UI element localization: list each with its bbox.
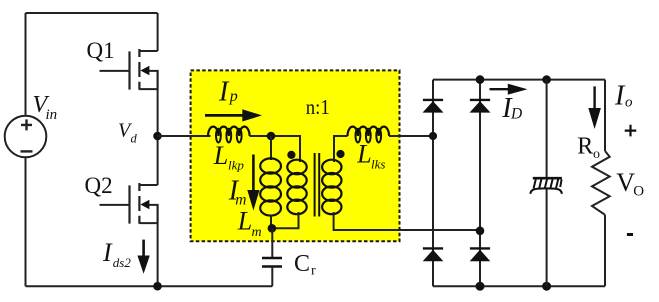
wire node to Lm: [270, 136, 272, 160]
rectifier top rail: [433, 79, 605, 81]
label VO: [616, 168, 644, 199]
node rectifier input bottom: [476, 227, 485, 236]
svg-text:in: in: [46, 107, 58, 123]
svg-text:D: D: [510, 106, 522, 123]
core: [315, 153, 320, 217]
source Vin: [5, 116, 47, 158]
transformer T1: [287, 150, 344, 217]
junction dot bottom-left rail: [153, 282, 162, 291]
label Llks: [356, 139, 385, 171]
svg-text:o: o: [593, 147, 600, 162]
secondary winding: [322, 160, 341, 175]
svg-text:p: p: [229, 88, 238, 105]
primary winding: [287, 160, 306, 175]
wire primary bottom to node B: [271, 212, 299, 228]
resonant tank highlight box: [191, 70, 400, 241]
svg-text:R: R: [577, 134, 593, 160]
svg-text:L: L: [213, 141, 228, 170]
diode D4: [470, 248, 491, 261]
node A (tank top): [267, 132, 276, 141]
current arrow ID: [490, 84, 528, 95]
label Cr: [294, 251, 316, 278]
svg-text:lks: lks: [371, 156, 385, 171]
svg-text:m: m: [252, 225, 262, 240]
node bottom rail D4: [476, 282, 485, 291]
node top rail D2: [476, 75, 485, 84]
rectifier left column wire: [432, 80, 434, 287]
secondary polarity dot: [336, 150, 344, 158]
wire left vertical below Vin: [25, 157, 27, 286]
diode D1: [423, 100, 444, 113]
wire left vertical above Vin: [25, 13, 27, 117]
load column wire upper: [604, 80, 606, 151]
label Vd: [118, 120, 138, 146]
label Ro: [577, 134, 600, 162]
wire Llkp to primary corner: [250, 136, 300, 162]
label Llkp: [213, 141, 245, 173]
resistor Ro: [592, 151, 610, 215]
label Lm: [237, 207, 262, 240]
current arrow Im: [247, 155, 259, 211]
label ID: [501, 93, 522, 124]
node Vd: [153, 132, 162, 141]
label Vin: [33, 92, 58, 123]
inductor Llks: [348, 127, 390, 143]
svg-text:n:1: n:1: [306, 95, 330, 119]
wire secondary top to Llks: [334, 136, 348, 162]
wire Lm bottom to node B: [270, 215, 272, 228]
capacitor Co column wire: [546, 80, 548, 287]
capacitor Cr: [262, 258, 282, 286]
diode D3: [423, 248, 444, 261]
label plus: [625, 125, 637, 137]
diode D2: [470, 100, 491, 113]
svg-text:O: O: [633, 183, 644, 199]
node B (tank bottom): [268, 224, 277, 233]
label Io: [614, 81, 633, 112]
current arrow Ip: [205, 109, 262, 121]
svg-text:o: o: [625, 94, 633, 110]
svg-text:C: C: [294, 251, 310, 277]
wire top rail left: [26, 12, 158, 14]
wire node B to Cr: [271, 228, 273, 257]
current arrow Ids2: [137, 240, 149, 274]
rectifier bottom rail: [433, 285, 605, 287]
primary polarity dot: [287, 151, 295, 159]
svg-text:d: d: [131, 132, 138, 146]
svg-text:I: I: [102, 238, 113, 267]
inductor Llkp: [208, 127, 250, 143]
inductor Lm (magnetizing): [260, 158, 281, 215]
svg-text:L: L: [237, 207, 252, 236]
svg-text:lkp: lkp: [228, 158, 244, 173]
svg-text:I: I: [218, 77, 230, 108]
svg-text:L: L: [356, 139, 371, 168]
label minus: [627, 233, 633, 236]
svg-text:Q1: Q1: [87, 38, 115, 63]
current arrow Io: [588, 86, 601, 129]
svg-text:ds2: ds2: [113, 255, 132, 270]
load column wire lower: [604, 215, 606, 286]
wire Vd to Llkp: [158, 135, 211, 137]
svg-text:r: r: [311, 263, 316, 278]
svg-text:Q2: Q2: [85, 173, 113, 198]
capacitor Co: [530, 178, 562, 194]
wire Llks to rectifier: [389, 135, 433, 137]
wire half-bridge vertical: [157, 13, 159, 286]
node rectifier input top: [429, 132, 437, 140]
transistor Q2: [100, 183, 158, 224]
wire secondary bottom to rectifier: [334, 212, 480, 230]
label Ip: [218, 77, 238, 108]
node top rail Co: [542, 75, 551, 84]
wire bottom rail left: [26, 285, 273, 287]
node bottom rail Co: [542, 282, 551, 291]
rectifier right column wire: [479, 80, 481, 287]
transistor Q1: [100, 49, 158, 90]
label Ids2: [102, 238, 131, 270]
label Im: [228, 176, 247, 209]
